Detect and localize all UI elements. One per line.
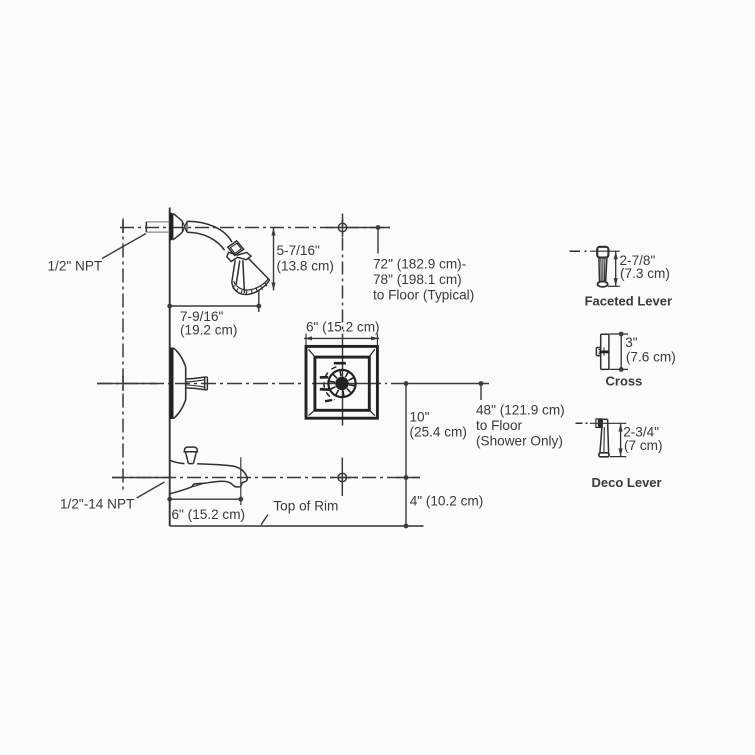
svg-text:(7 cm): (7 cm)	[624, 438, 663, 453]
svg-text:72" (182.9 cm)-: 72" (182.9 cm)-	[373, 257, 466, 272]
svg-text:(7.3 cm): (7.3 cm)	[620, 266, 670, 281]
svg-text:to Floor (Typical): to Floor (Typical)	[373, 287, 474, 302]
svg-text:3": 3"	[625, 335, 638, 350]
svg-text:(Shower Only): (Shower Only)	[476, 433, 563, 448]
svg-text:6" (15.2 cm): 6" (15.2 cm)	[172, 507, 246, 522]
svg-text:(19.2 cm): (19.2 cm)	[180, 323, 237, 338]
svg-text:(25.4 cm): (25.4 cm)	[410, 425, 467, 440]
svg-text:6" (15.2 cm): 6" (15.2 cm)	[306, 320, 380, 335]
svg-text:(13.8 cm): (13.8 cm)	[277, 259, 334, 274]
svg-text:4" (10.2 cm): 4" (10.2 cm)	[410, 493, 484, 508]
svg-text:(7.6 cm): (7.6 cm)	[626, 349, 676, 364]
svg-text:48" (121.9 cm): 48" (121.9 cm)	[476, 403, 565, 418]
svg-text:Faceted Lever: Faceted Lever	[585, 294, 672, 309]
svg-text:Top of Rim: Top of Rim	[273, 498, 338, 513]
svg-text:78" (198.1 cm): 78" (198.1 cm)	[373, 272, 462, 287]
svg-text:Deco Lever: Deco Lever	[592, 475, 662, 490]
svg-text:1/2"-14 NPT: 1/2"-14 NPT	[60, 497, 134, 512]
svg-text:Cross: Cross	[606, 374, 643, 389]
svg-text:5-7/16": 5-7/16"	[277, 243, 321, 258]
svg-text:to Floor: to Floor	[476, 418, 523, 433]
svg-text:1/2" NPT: 1/2" NPT	[48, 259, 103, 274]
svg-text:10": 10"	[410, 410, 430, 425]
